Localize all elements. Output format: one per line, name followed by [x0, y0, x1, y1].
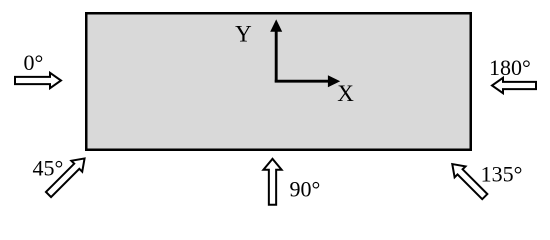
svg-text:X: X — [337, 81, 354, 106]
Y axis line — [275, 30, 278, 83]
svg-text:45°: 45° — [33, 156, 64, 181]
arrow 45 deg (hollow, pointing up-right) — [43, 153, 90, 200]
svg-text:0°: 0° — [24, 50, 44, 75]
plate rectangle — [86, 13, 471, 150]
arrow 135 deg (hollow, pointing up-left) — [447, 159, 490, 202]
svg-text:90°: 90° — [290, 177, 321, 202]
svg-text:135°: 135° — [481, 162, 523, 187]
arrow 90 deg (hollow, pointing up) — [263, 159, 281, 205]
arrow 180 deg (hollow, pointing left) — [492, 78, 536, 93]
svg-text:Y: Y — [235, 21, 252, 46]
arrow 0 deg (hollow, pointing right) — [15, 73, 61, 88]
Y axis arrowhead — [270, 19, 282, 31]
X axis line — [275, 80, 330, 83]
X axis arrowhead — [328, 75, 340, 87]
svg-text:180°: 180° — [489, 55, 531, 80]
